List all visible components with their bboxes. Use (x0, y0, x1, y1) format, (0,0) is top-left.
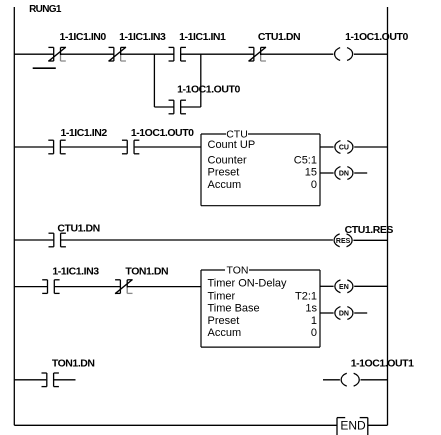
wire rung5 coil to rail (361, 379, 388, 381)
coil CTU1.RES reset (334, 234, 352, 247)
svg-text:1-1IC1.IN0: 1-1IC1.IN0 (60, 31, 107, 43)
svg-text:Preset: Preset (208, 167, 240, 179)
svg-text:1-1OC1.OUT1: 1-1OC1.OUT1 (351, 358, 414, 370)
wire rung4 rail to contact IN3 (14, 286, 47, 288)
edit cursor mark under contact 1-1IC1.IN0 (33, 67, 56, 69)
left power rail (13, 7, 15, 425)
svg-text:1s: 1s (305, 303, 317, 315)
coil CTU CU output (335, 141, 353, 154)
svg-text:1-1IC1.IN2: 1-1IC1.IN2 (60, 127, 107, 139)
wire CTU DN output (320, 172, 334, 174)
svg-text:CTU1.RES: CTU1.RES (345, 224, 394, 236)
wire rung5 stub after contact (54, 379, 76, 381)
contact CTU1.DN rung3 normally open (49, 233, 66, 247)
svg-text:Accum: Accum (208, 179, 242, 191)
contact 1-1IC1.IN3 normally closed (109, 47, 126, 61)
svg-text:Count UP: Count UP (208, 139, 256, 151)
wire TON DN output (320, 312, 334, 314)
wire rung1 IN1 to CTU1.DN (180, 53, 254, 55)
svg-text:0: 0 (311, 327, 317, 339)
svg-text:1: 1 (311, 315, 317, 327)
coil 1-1OC1.OUT0 (335, 48, 353, 61)
contact 1-1IC1.IN0 normally closed (48, 47, 65, 61)
wire rung1 CTU1.DN to coil (260, 53, 333, 55)
svg-text:C5:1: C5:1 (294, 154, 317, 166)
svg-text:DN: DN (339, 171, 349, 178)
wire rung1 rail to contact IN0 (14, 53, 53, 55)
coil TON DN output (335, 307, 353, 320)
svg-text:1-1IC1.IN3: 1-1IC1.IN3 (119, 31, 166, 43)
wire rung3 RES coil to rail (353, 239, 387, 241)
contact 1-1OC1.OUT0 rung2 normally open (122, 140, 139, 154)
wire CTU CU coil to rail (354, 146, 387, 148)
svg-text:1-1IC1.IN1: 1-1IC1.IN1 (179, 31, 226, 43)
contact TON1.DN rung5 normally open (42, 373, 59, 387)
svg-text:END: END (340, 419, 366, 433)
END box brackets (337, 418, 368, 435)
wire rung2 IN2 to OUT0 (61, 146, 127, 148)
svg-text:CTU1.DN: CTU1.DN (57, 222, 99, 234)
wire rung2 rail to contact IN2 (14, 146, 53, 148)
svg-text:1-1OC1.OUT0: 1-1OC1.OUT0 (131, 127, 194, 139)
svg-text:TON1.DN: TON1.DN (125, 266, 168, 278)
right power rail (387, 7, 389, 425)
svg-text:TON: TON (227, 264, 249, 276)
wire rung4 TON1.DN to TON box (127, 286, 201, 288)
wire rung3 rail to contact CTU1.DN (14, 239, 53, 241)
wire CTU CU output (320, 146, 334, 148)
wire rung1 IN0 to IN3 (61, 53, 114, 55)
wire bottom rail to END box (14, 424, 337, 426)
svg-text:CTU1.DN: CTU1.DN (258, 31, 300, 43)
wire TON EN coil to rail (354, 285, 387, 287)
coil 1-1OC1.OUT1 (341, 373, 359, 386)
svg-text:Timer ON-Delay: Timer ON-Delay (208, 278, 288, 290)
contact 1-1IC1.IN2 normally open (48, 140, 65, 154)
svg-text:Time Base: Time Base (208, 303, 260, 315)
wire rung5 rail to contact TON1.DN (14, 379, 46, 381)
wire END box to rail (368, 424, 388, 426)
svg-text:1-1OC1.OUT0: 1-1OC1.OUT0 (177, 84, 240, 96)
svg-text:DN: DN (339, 311, 349, 318)
svg-text:15: 15 (305, 167, 317, 179)
wire TON DN coil stub (354, 312, 367, 314)
coil TON EN output (335, 280, 353, 293)
branch wire right (180, 106, 201, 108)
coil CTU DN output (335, 167, 353, 180)
svg-text:Preset: Preset (208, 315, 240, 327)
timer block TON box (201, 270, 320, 347)
svg-text:Accum: Accum (208, 327, 242, 339)
svg-text:1-1IC1.IN3: 1-1IC1.IN3 (52, 266, 99, 278)
svg-text:CU: CU (339, 145, 349, 152)
svg-text:1-1OC1.OUT0: 1-1OC1.OUT0 (345, 31, 408, 43)
wire rung4 IN3 to TON1.DN (54, 286, 120, 288)
svg-text:Timer: Timer (208, 290, 236, 302)
svg-text:RUNG1: RUNG1 (29, 4, 62, 15)
svg-text:T2:1: T2:1 (295, 290, 317, 302)
contact CTU1.DN rung1 normally closed (249, 47, 266, 61)
wire rung1 IN3 to IN1 (121, 53, 175, 55)
wire rung2 OUT0 to CTU box (135, 146, 201, 148)
wire CTU DN coil stub (354, 172, 367, 174)
wire rung5 stub before coil (323, 379, 340, 381)
svg-text:TON1.DN: TON1.DN (52, 358, 95, 370)
branch wire left (154, 106, 174, 108)
counter block CTU box (201, 134, 320, 206)
svg-text:Counter: Counter (208, 154, 247, 166)
branch vertical right (200, 54, 202, 107)
contact 1-1OC1.OUT0 branch normally open (169, 100, 186, 114)
svg-text:RES: RES (336, 238, 351, 245)
wire rung1 coil to rail (354, 53, 388, 55)
svg-text:EN: EN (339, 284, 349, 291)
wire rung3 contact to RES coil (61, 239, 333, 241)
contact 1-1IC1.IN3 rung4 normally open (42, 280, 59, 294)
wire TON EN output (320, 285, 334, 287)
contact TON1.DN rung4 normally closed (115, 280, 132, 294)
branch vertical left (153, 54, 155, 107)
svg-text:0: 0 (311, 179, 317, 191)
contact 1-1IC1.IN1 normally open (169, 47, 186, 61)
